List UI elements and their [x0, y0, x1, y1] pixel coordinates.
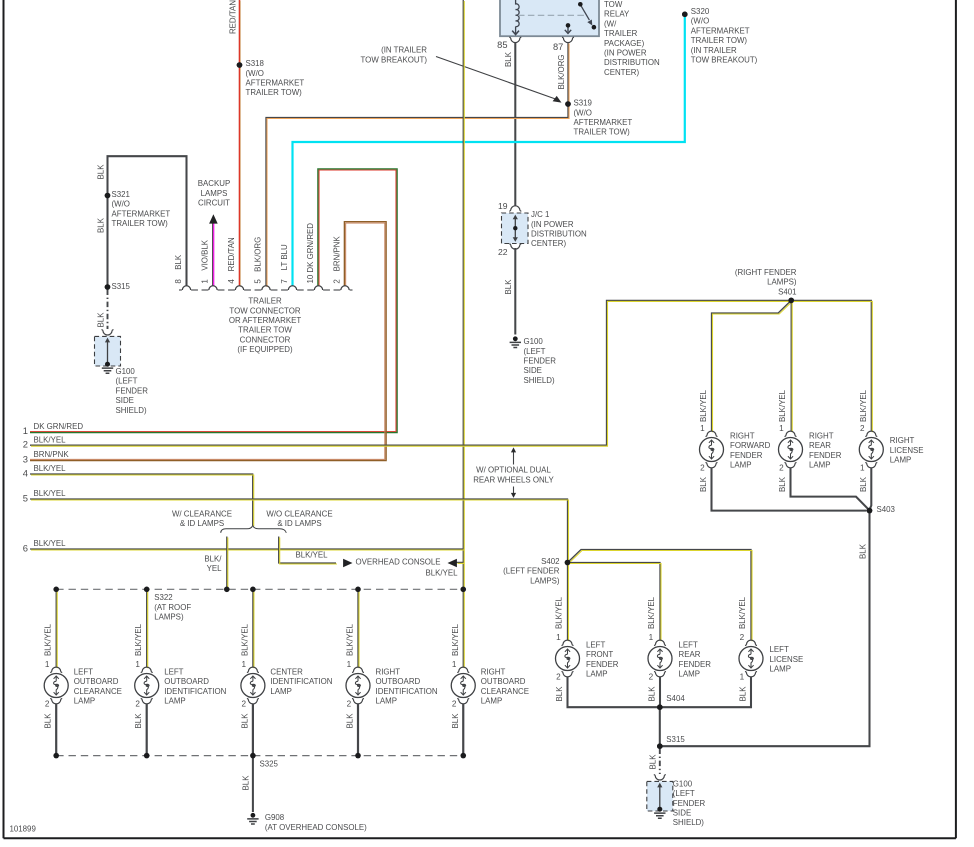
svg-text:FENDER: FENDER: [116, 386, 149, 395]
svg-text:BLK/YEL: BLK/YEL: [699, 389, 708, 422]
svg-text:BLK: BLK: [504, 279, 513, 295]
connector pin 7: [288, 286, 296, 290]
svg-text:BLK: BLK: [96, 217, 105, 233]
connector pin 1: [209, 286, 217, 290]
svg-text:1: 1: [860, 464, 865, 473]
splice S320: [682, 12, 688, 18]
wire BLK/YEL S401 to right forward fender lamp: [712, 300, 792, 431]
splice dots redraw on top: [237, 62, 243, 68]
wire BLK/YEL w/o clearance to overhead console: [279, 537, 336, 564]
svg-text:1: 1: [740, 673, 745, 682]
svg-text:(LEFT: (LEFT: [524, 347, 546, 356]
svg-text:1: 1: [700, 424, 705, 433]
svg-text:SHIELD): SHIELD): [116, 406, 148, 415]
svg-text:S318: S318: [246, 59, 265, 68]
svg-text:FRONT: FRONT: [586, 650, 613, 659]
svg-text:2: 2: [452, 700, 457, 709]
svg-text:REAR: REAR: [679, 650, 701, 659]
svg-text:BLK/YEL: BLK/YEL: [44, 623, 53, 656]
svg-text:(IN TRAILER: (IN TRAILER: [381, 46, 427, 55]
svg-text:(IN TRAILER: (IN TRAILER: [691, 46, 737, 55]
svg-text:2: 2: [740, 633, 745, 642]
splice S319: [565, 101, 571, 107]
svg-text:SIDE: SIDE: [524, 366, 542, 375]
svg-text:LAMPS: LAMPS: [201, 189, 228, 198]
wire BLK center identification lamp to bottom bus: [252, 704, 254, 756]
wire BLK/YEL bus to left outboard clearance lamp: [55, 589, 57, 667]
svg-text:CLEARANCE: CLEARANCE: [74, 687, 122, 696]
connector pin 2: [341, 286, 349, 290]
svg-text:S403: S403: [877, 505, 896, 514]
wire BLK/YEL S402 to left front fender lamp: [567, 563, 569, 641]
svg-text:DK GRN/RED: DK GRN/RED: [34, 422, 84, 431]
svg-text:IDENTIFICATION: IDENTIFICATION: [164, 687, 226, 696]
svg-text:1: 1: [779, 424, 784, 433]
svg-text:SIDE: SIDE: [116, 396, 134, 405]
svg-text:(W/O: (W/O: [246, 69, 264, 78]
svg-text:CLEARANCE: CLEARANCE: [481, 687, 529, 696]
svg-text:OR AFTERMARKET: OR AFTERMARKET: [229, 316, 302, 325]
svg-text:CENTER: CENTER: [270, 667, 303, 676]
svg-text:REAR: REAR: [809, 441, 831, 450]
svg-text:BLK/YEL: BLK/YEL: [859, 389, 868, 422]
relay switch blade: [580, 5, 589, 21]
svg-text:TRAILER TOW): TRAILER TOW): [246, 88, 303, 97]
svg-text:S401: S401: [778, 287, 796, 296]
svg-text:DISTRIBUTION: DISTRIBUTION: [604, 58, 660, 67]
trailer tow connector pins row: [179, 289, 353, 291]
svg-text:(RIGHT FENDER: (RIGHT FENDER: [735, 268, 797, 277]
wire BLK left outboard clearance lamp to bottom bus: [55, 704, 57, 756]
svg-text:(LEFT: (LEFT: [673, 789, 695, 798]
svg-text:BLK: BLK: [858, 543, 867, 559]
wire BLK/YEL bus to center identification lamp: [252, 589, 254, 667]
svg-text:CIRCUIT: CIRCUIT: [198, 199, 230, 208]
wire 2 BLK/YEL to S401: [30, 300, 791, 445]
svg-text:LAMP: LAMP: [770, 665, 792, 674]
svg-text:RIGHT: RIGHT: [376, 667, 401, 676]
svg-text:BLK: BLK: [648, 686, 657, 702]
wire 4 BLK/YEL to clearance brace: [30, 474, 253, 525]
svg-text:W/ OPTIONAL DUAL: W/ OPTIONAL DUAL: [476, 466, 551, 475]
svg-text:BLK/YEL: BLK/YEL: [240, 623, 249, 656]
svg-text:TOW: TOW: [604, 0, 623, 9]
wire BLK/YEL S402 to left rear fender lamp: [568, 563, 661, 641]
relay coil: [516, 0, 520, 34]
svg-text:5: 5: [254, 279, 263, 284]
svg-text:1: 1: [452, 660, 457, 669]
svg-text:VIO/BLK: VIO/BLK: [201, 239, 210, 270]
svg-text:101899: 101899: [10, 824, 37, 833]
svg-text:(W/O: (W/O: [691, 17, 709, 26]
svg-text:CENTER): CENTER): [604, 68, 639, 77]
svg-text:OUTBOARD: OUTBOARD: [481, 677, 526, 686]
svg-text:BLK/YEL: BLK/YEL: [647, 596, 656, 629]
svg-text:AFTERMARKET: AFTERMARKET: [246, 79, 305, 88]
svg-text:6: 6: [23, 542, 28, 553]
wire BLK/YEL S401 to right rear fender lamp: [790, 300, 792, 431]
clearance options brace: [221, 525, 287, 532]
svg-text:BLK/ORG: BLK/ORG: [254, 237, 263, 272]
svg-text:RELAY: RELAY: [604, 10, 630, 19]
svg-text:G908: G908: [265, 813, 285, 822]
svg-text:1: 1: [135, 660, 140, 669]
svg-text:BLK: BLK: [451, 713, 460, 729]
svg-text:BLK/YEL: BLK/YEL: [554, 596, 563, 629]
wire branch to overhead console right arrow: [457, 561, 464, 563]
splice S321: [105, 193, 111, 199]
svg-text:4: 4: [23, 467, 28, 478]
wire RED/TAN from top to connector pin 4: [239, 0, 241, 286]
svg-text:4: 4: [227, 279, 236, 284]
wire BLK/YEL S402 to left license lamp: [568, 550, 752, 641]
svg-text:LAMP: LAMP: [809, 461, 831, 470]
svg-text:3: 3: [23, 453, 28, 464]
svg-text:& ID LAMPS: & ID LAMPS: [180, 519, 224, 528]
roof lamps bottom dashed bus: [56, 755, 463, 757]
svg-text:FENDER: FENDER: [730, 451, 763, 460]
svg-text:FENDER: FENDER: [673, 799, 706, 808]
svg-text:RIGHT: RIGHT: [809, 431, 834, 440]
svg-text:S315: S315: [112, 282, 131, 291]
svg-text:LEFT: LEFT: [586, 640, 605, 649]
svg-text:5: 5: [23, 492, 28, 503]
svg-text:BLK: BLK: [739, 686, 748, 702]
svg-text:FENDER: FENDER: [679, 660, 712, 669]
splice S402: [565, 560, 571, 566]
svg-text:BLK: BLK: [174, 254, 183, 270]
wire 5 BLK/YEL to S402: [30, 499, 568, 561]
wire BLK right license lamp to S403: [870, 468, 872, 510]
svg-text:SIDE: SIDE: [673, 809, 691, 818]
svg-text:(IN POWER: (IN POWER: [531, 220, 574, 229]
svg-text:LAMP: LAMP: [74, 697, 96, 706]
svg-text:7: 7: [280, 279, 289, 284]
wire BLK dash-dot S315 to G100 box: [107, 290, 109, 330]
wire BLK left outboard identification lamp to bottom bus: [146, 704, 148, 756]
connector pin 5: [262, 286, 270, 290]
svg-text:J/C 1: J/C 1: [531, 210, 549, 219]
svg-text:BLK: BLK: [242, 775, 251, 791]
wire 6 BLK/YEL to left edge: [30, 548, 463, 550]
svg-text:RED/TAN: RED/TAN: [227, 237, 236, 271]
svg-text:BACKUP: BACKUP: [198, 179, 230, 188]
svg-text:AFTERMARKET: AFTERMARKET: [574, 118, 633, 127]
svg-text:(AT OVERHEAD CONSOLE): (AT OVERHEAD CONSOLE): [265, 823, 367, 832]
wire BLK right forward fender lamp to S403: [712, 468, 867, 511]
svg-text:TRAILER: TRAILER: [248, 297, 282, 306]
svg-text:FORWARD: FORWARD: [730, 441, 771, 450]
svg-text:85: 85: [497, 40, 507, 50]
splice S403: [867, 508, 873, 514]
svg-text:AFTERMARKET: AFTERMARKET: [112, 209, 171, 218]
svg-text:BLK: BLK: [699, 476, 708, 492]
splice S404: [657, 704, 663, 710]
svg-text:BLK: BLK: [859, 476, 868, 492]
wire BLK S404 to S315: [659, 707, 661, 746]
svg-text:OUTBOARD: OUTBOARD: [74, 677, 119, 686]
svg-text:2: 2: [23, 439, 28, 450]
wire BLK relay pin85 to J/C1: [514, 43, 516, 206]
wire DK GRN/RED connector pin 10 to left edge wire 1: [30, 169, 397, 433]
svg-text:LEFT: LEFT: [164, 667, 183, 676]
wire BRN/PNK connector pin 2 to left edge wire 3: [30, 222, 386, 461]
svg-text:REAR WHEELS ONLY: REAR WHEELS ONLY: [473, 475, 554, 484]
svg-text:W/O CLEARANCE: W/O CLEARANCE: [266, 509, 332, 518]
svg-text:BLK: BLK: [555, 686, 564, 702]
svg-text:S402: S402: [541, 557, 559, 566]
svg-text:TRAILER: TRAILER: [604, 29, 638, 38]
svg-text:S325: S325: [260, 760, 279, 769]
svg-text:YEL: YEL: [207, 564, 223, 573]
roof lamps top dashed bus: [56, 588, 463, 590]
svg-text:TRAILER TOW): TRAILER TOW): [574, 128, 631, 137]
bottom bus splice dots: [53, 753, 59, 759]
svg-text:LAMP: LAMP: [730, 461, 752, 470]
svg-text:RED/TAN: RED/TAN: [229, 0, 238, 34]
svg-text:(W/: (W/: [604, 19, 617, 28]
wire BLK/YEL bus to right outboard identification lamp: [357, 589, 359, 667]
svg-text:TOW CONNECTOR: TOW CONNECTOR: [229, 306, 300, 315]
svg-text:10: 10: [306, 274, 315, 283]
svg-text:LICENSE: LICENSE: [890, 446, 924, 455]
svg-text:BLK: BLK: [44, 713, 53, 729]
svg-text:BLK: BLK: [96, 164, 105, 180]
svg-text:BLK: BLK: [96, 312, 105, 328]
svg-text:BLK: BLK: [778, 476, 787, 492]
svg-text:TRAILER TOW): TRAILER TOW): [112, 219, 169, 228]
svg-text:CONNECTOR: CONNECTOR: [240, 335, 291, 344]
svg-text:BLK: BLK: [346, 713, 355, 729]
svg-text:2: 2: [779, 464, 784, 473]
svg-text:SHIELD): SHIELD): [673, 818, 705, 827]
svg-text:BLK/YEL: BLK/YEL: [738, 596, 747, 629]
svg-text:(LEFT: (LEFT: [116, 377, 138, 386]
svg-text:BLK/YEL: BLK/YEL: [134, 623, 143, 656]
svg-text:19: 19: [498, 201, 508, 211]
svg-text:OVERHEAD CONSOLE: OVERHEAD CONSOLE: [356, 558, 441, 567]
svg-text:S315: S315: [666, 735, 685, 744]
svg-text:PACKAGE): PACKAGE): [604, 39, 645, 48]
svg-text:2: 2: [347, 700, 352, 709]
svg-text:1: 1: [556, 633, 561, 642]
svg-text:LAMP: LAMP: [164, 697, 186, 706]
svg-text:DK GRN/RED: DK GRN/RED: [306, 223, 315, 273]
svg-text:CENTER): CENTER): [531, 239, 566, 248]
wire BLK S403 down to S315: [662, 511, 870, 747]
svg-text:LEFT: LEFT: [770, 645, 789, 654]
svg-text:S404: S404: [666, 694, 685, 703]
svg-text:RIGHT: RIGHT: [890, 436, 915, 445]
connector pin 4: [235, 286, 243, 290]
ground strap G100 left: [102, 330, 114, 335]
svg-text:RIGHT: RIGHT: [730, 431, 755, 440]
svg-text:G100: G100: [116, 367, 136, 376]
svg-text:1: 1: [347, 660, 352, 669]
connector pin 10: [314, 286, 322, 290]
wire BLK left front fender lamp to S404: [568, 677, 658, 708]
svg-text:2: 2: [135, 700, 140, 709]
wire BLK left rear fender lamp to S404: [659, 677, 661, 708]
svg-text:LAMPS): LAMPS): [767, 278, 797, 287]
svg-text:2: 2: [556, 673, 561, 682]
svg-text:1: 1: [201, 279, 210, 284]
svg-text:FENDER: FENDER: [809, 451, 842, 460]
wire BLK right outboard clearance lamp to bottom bus: [462, 704, 464, 756]
svg-text:LT BLU: LT BLU: [280, 244, 289, 270]
svg-text:AFTERMARKET: AFTERMARKET: [691, 26, 750, 35]
connector pin 8: [182, 286, 190, 290]
wire VIO/BLK with up arrow - connector pin 1: [212, 222, 214, 286]
svg-text:LAMP: LAMP: [481, 697, 503, 706]
svg-text:TRAILER TOW: TRAILER TOW: [238, 326, 292, 335]
svg-text:1: 1: [45, 660, 50, 669]
wire BLK connector pin 8 to S321 to S315: [108, 156, 187, 287]
svg-text:LAMP: LAMP: [679, 670, 701, 679]
ground strap G100 right: [654, 775, 666, 780]
svg-text:22: 22: [498, 247, 508, 257]
splice S315 left: [105, 284, 111, 290]
svg-text:BLK/YEL: BLK/YEL: [34, 539, 67, 548]
svg-text:& ID LAMPS: & ID LAMPS: [277, 519, 321, 528]
svg-text:BLK: BLK: [240, 713, 249, 729]
splice S315 right: [657, 743, 663, 749]
svg-text:IDENTIFICATION: IDENTIFICATION: [270, 677, 332, 686]
w/ optional dual rear wheels only annotation: [513, 450, 515, 465]
svg-text:LAMP: LAMP: [270, 687, 292, 696]
svg-text:(W/O: (W/O: [574, 108, 592, 117]
wire BLK left license lamp to S404: [662, 677, 751, 708]
svg-text:BLK/ORG: BLK/ORG: [557, 54, 566, 89]
svg-text:OUTBOARD: OUTBOARD: [376, 677, 421, 686]
splice S318: [237, 62, 243, 68]
svg-text:OUTBOARD: OUTBOARD: [164, 677, 209, 686]
svg-text:1: 1: [23, 425, 28, 436]
svg-text:FENDER: FENDER: [524, 357, 557, 366]
svg-text:BLK/: BLK/: [204, 554, 222, 563]
svg-text:G100: G100: [673, 779, 693, 788]
svg-text:FENDER: FENDER: [586, 660, 619, 669]
svg-text:2: 2: [649, 673, 654, 682]
splice S401: [788, 298, 794, 304]
svg-text:DISTRIBUTION: DISTRIBUTION: [531, 230, 587, 239]
svg-text:LAMP: LAMP: [890, 456, 912, 465]
svg-text:BLK/YEL: BLK/YEL: [425, 568, 458, 577]
wire LT BLU S320 to connector pin 7: [293, 14, 685, 286]
svg-text:S322: S322: [154, 593, 172, 602]
svg-text:TRAILER TOW): TRAILER TOW): [691, 36, 748, 45]
wire BLK right outboard identification lamp to bottom bus: [357, 704, 359, 756]
svg-text:LAMPS): LAMPS): [154, 613, 184, 622]
svg-text:BRN/PNK: BRN/PNK: [34, 450, 70, 459]
svg-text:BLK/YEL: BLK/YEL: [778, 389, 787, 422]
svg-text:BLK/YEL: BLK/YEL: [34, 489, 67, 498]
svg-text:BLK/YEL: BLK/YEL: [451, 623, 460, 656]
svg-text:LEFT: LEFT: [679, 640, 698, 649]
svg-text:LEFT: LEFT: [74, 667, 93, 676]
svg-text:LAMP: LAMP: [586, 670, 608, 679]
svg-text:2: 2: [333, 279, 342, 284]
svg-text:S321: S321: [112, 190, 130, 199]
svg-text:BLK: BLK: [504, 51, 513, 67]
svg-text:87: 87: [553, 42, 563, 52]
svg-text:1: 1: [242, 660, 247, 669]
svg-text:LAMPS): LAMPS): [530, 576, 560, 585]
svg-text:IDENTIFICATION: IDENTIFICATION: [376, 687, 438, 696]
svg-text:W/ CLEARANCE: W/ CLEARANCE: [172, 509, 232, 518]
svg-text:8: 8: [174, 279, 183, 284]
svg-text:2: 2: [242, 700, 247, 709]
wire BLK/YEL bus to left outboard identification lamp: [146, 589, 148, 667]
relay pin 87 internal lead: [566, 23, 571, 28]
wire BLK S325 to ground G908: [252, 756, 254, 812]
svg-text:LAMP: LAMP: [376, 697, 398, 706]
svg-text:BRN/PNK: BRN/PNK: [333, 236, 342, 272]
wire BLK right rear fender lamp to S403: [791, 468, 870, 511]
svg-text:LICENSE: LICENSE: [770, 655, 804, 664]
svg-text:2: 2: [45, 700, 50, 709]
wire BLK/ORG relay pin87 to S319 to connector pin 5: [266, 43, 568, 287]
top bus splice dots: [53, 587, 59, 593]
wire BLK J/C1 to ground G100: [514, 248, 516, 335]
svg-text:(IN POWER: (IN POWER: [604, 49, 647, 58]
relay box U1 - tow relay: [500, 0, 599, 36]
svg-text:BLK/YEL: BLK/YEL: [346, 623, 355, 656]
svg-text:BLK/YEL: BLK/YEL: [34, 464, 67, 473]
svg-text:1: 1: [649, 633, 654, 642]
svg-text:BLK: BLK: [134, 713, 143, 729]
svg-text:RIGHT: RIGHT: [481, 667, 506, 676]
svg-text:(IF EQUIPPED): (IF EQUIPPED): [237, 345, 293, 354]
ground G908: [251, 813, 256, 818]
svg-text:BLK/YEL: BLK/YEL: [296, 551, 329, 560]
svg-text:BLK/YEL: BLK/YEL: [34, 435, 67, 444]
relay armature dashed line: [518, 14, 585, 16]
wire BLK dash-dot S315 to G100 box: [659, 749, 661, 775]
svg-text:SHIELD): SHIELD): [524, 376, 556, 385]
svg-text:TOW BREAKOUT): TOW BREAKOUT): [691, 56, 758, 65]
wire BLK/YEL S401 to right license lamp: [791, 300, 871, 431]
svg-text:2: 2: [860, 424, 865, 433]
svg-text:S319: S319: [574, 99, 593, 108]
ground G100 mid: [513, 336, 518, 341]
wire BLK/YEL from top to roof lamp bus: [462, 0, 464, 589]
svg-text:(LEFT FENDER: (LEFT FENDER: [503, 567, 560, 576]
wire BLK/YEL bus to right outboard clearance lamp: [462, 589, 464, 667]
svg-text:BLK: BLK: [649, 754, 658, 770]
svg-text:(AT ROOF: (AT ROOF: [154, 603, 191, 612]
svg-text:(W/O: (W/O: [112, 200, 130, 209]
svg-text:S320: S320: [691, 7, 710, 16]
svg-text:TOW BREAKOUT): TOW BREAKOUT): [361, 55, 428, 64]
wire BLK/YEL w/ clearance to roof bus: [226, 537, 228, 590]
svg-text:2: 2: [700, 464, 705, 473]
svg-text:G100: G100: [524, 337, 544, 346]
